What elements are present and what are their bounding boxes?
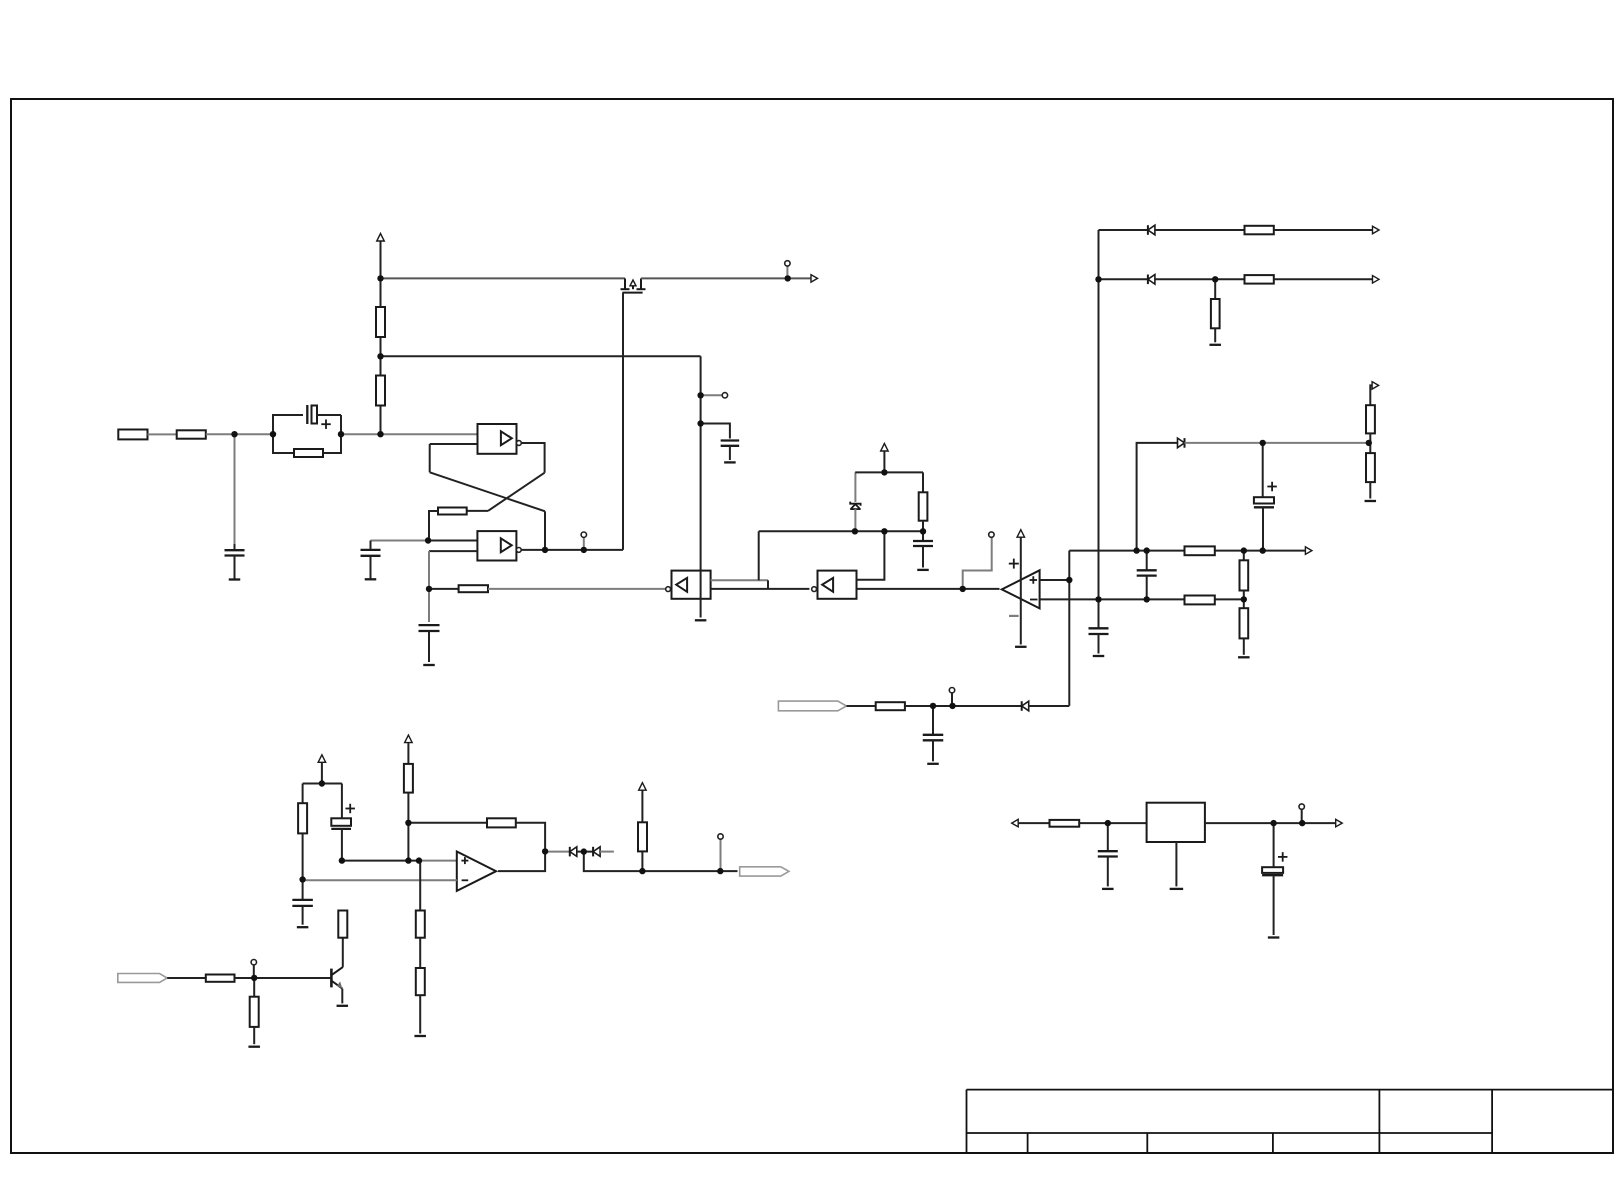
- wire jog: [767, 580, 769, 589]
- node N32: [299, 876, 305, 882]
- wire stub: [600, 851, 614, 853]
- node N13: [697, 420, 703, 426]
- wire cross-couple: [488, 473, 545, 511]
- node N19: [1066, 577, 1072, 583]
- offpage arrow: [1373, 226, 1380, 234]
- output flag FLAG2: [740, 867, 789, 876]
- node N27: [1241, 596, 1247, 602]
- connector J1: [118, 430, 147, 440]
- wire branch2: [1099, 278, 1148, 280]
- wire output U1A: [521, 443, 544, 473]
- label - supply: [1009, 615, 1019, 617]
- offpage arrow: [1305, 547, 1312, 555]
- wire: [429, 511, 438, 541]
- power VCC2: [883, 451, 885, 472]
- node N34: [405, 857, 411, 863]
- offpage arrow left: [1012, 819, 1019, 827]
- resistor R8: [1185, 546, 1215, 555]
- test point TP2: [583, 537, 585, 550]
- test point TP5: [253, 965, 255, 978]
- wire: [701, 394, 723, 396]
- ground: [248, 1046, 260, 1048]
- node N7: [785, 275, 791, 281]
- wire: [206, 433, 273, 435]
- power VCC1: [380, 241, 382, 278]
- wire rail: [381, 277, 626, 279]
- node N24: [1260, 440, 1266, 446]
- node N46: [1299, 820, 1305, 826]
- resistor R21: [416, 968, 425, 995]
- wire through U2A: [700, 571, 702, 618]
- resistor R9: [1243, 551, 1245, 561]
- wire output U1B: [521, 549, 623, 551]
- wire: [429, 550, 477, 552]
- wire: [1068, 580, 1070, 706]
- resistor R17: [302, 784, 304, 804]
- resistor R19: [487, 818, 516, 827]
- wire: [516, 823, 545, 852]
- comparator U1B: [477, 531, 516, 560]
- wire: [855, 471, 923, 473]
- wire U3 -in: [1040, 598, 1099, 600]
- label + supply: [1009, 563, 1019, 565]
- power V+ U3: [1020, 537, 1022, 571]
- node N25: [1095, 596, 1101, 602]
- ground: [414, 1035, 426, 1037]
- wire: [1018, 822, 1049, 824]
- node N1: [231, 431, 237, 437]
- ground: [365, 578, 377, 580]
- pin - label: [1030, 599, 1038, 601]
- resistor R6: [459, 585, 488, 592]
- wire: [758, 531, 760, 580]
- wire: [428, 540, 477, 542]
- diode D5: [569, 847, 571, 857]
- flag FLAG3: [778, 701, 846, 711]
- capacitor C9: [1098, 599, 1100, 628]
- wire: [407, 793, 409, 861]
- diode D6: [592, 847, 594, 857]
- wire: [1079, 822, 1146, 824]
- node N12: [697, 392, 703, 398]
- resistor R15: [1366, 405, 1375, 433]
- wire: [1068, 551, 1070, 580]
- wire U3 +in: [1040, 579, 1070, 581]
- wire: [380, 406, 382, 435]
- zener D1: [854, 472, 856, 502]
- resistor R20: [419, 861, 421, 911]
- wire: [380, 278, 382, 307]
- wire trunk: [1098, 230, 1100, 599]
- wire through U3: [1020, 571, 1022, 645]
- node N36: [405, 820, 411, 826]
- ground: [1093, 655, 1105, 657]
- resistor R23: [253, 978, 255, 997]
- wire: [148, 433, 177, 435]
- test point TP8: [1301, 809, 1303, 823]
- node N37: [542, 848, 548, 854]
- ground: [724, 461, 736, 463]
- node N29: [1212, 276, 1218, 282]
- wire: [1274, 278, 1373, 280]
- wire: [1205, 822, 1336, 824]
- wire: [430, 443, 478, 445]
- wire: [235, 977, 331, 979]
- capacitor C12: [932, 706, 934, 735]
- node N39: [581, 848, 587, 854]
- node N9: [426, 586, 432, 592]
- wire U2A out B: [711, 588, 810, 590]
- power VCC4: [405, 735, 413, 743]
- regulator U5: [1147, 803, 1205, 842]
- wire: [857, 531, 885, 580]
- node N8: [425, 537, 431, 543]
- resistor R2 (parallel RC): [273, 434, 294, 453]
- wire cross-couple: [430, 472, 545, 511]
- ground: [1238, 656, 1250, 658]
- node N14: [852, 528, 858, 534]
- wire: [963, 588, 1000, 590]
- input flag FLAG1: [118, 974, 167, 983]
- op-amp U4: [457, 852, 496, 891]
- diode D2: [1184, 438, 1186, 448]
- test point TP1: [786, 266, 788, 278]
- node N3: [338, 431, 344, 437]
- offpage arrow: [1373, 276, 1380, 284]
- wire: [380, 337, 382, 376]
- node N21: [1144, 547, 1150, 553]
- wire line A: [1069, 550, 1306, 552]
- resistor R24: [338, 911, 347, 938]
- test point TP3: [722, 393, 727, 398]
- resistor R22: [206, 975, 235, 982]
- capacitor C11 (polarized): [341, 784, 343, 819]
- ground: [1268, 936, 1280, 938]
- resistor R1: [177, 430, 206, 438]
- offpage arrow: [811, 275, 818, 283]
- node N28: [1095, 276, 1101, 282]
- capacitor C1: [234, 544, 236, 550]
- wire: [788, 277, 811, 279]
- resistor R7: [922, 472, 924, 492]
- node N33: [339, 857, 345, 863]
- comparator U1A: [478, 424, 517, 454]
- capacitor C2 (polarized, parallel RC): [273, 415, 303, 434]
- node N22: [1241, 547, 1247, 553]
- ground: [229, 578, 241, 580]
- node N35: [416, 857, 422, 863]
- resistor R5: [438, 508, 467, 515]
- wire feedback: [408, 822, 487, 824]
- wire: [700, 356, 702, 570]
- wire: [419, 860, 457, 862]
- op-amp U3: [1002, 570, 1040, 608]
- resistor R26: [876, 702, 905, 710]
- ground: [337, 1005, 349, 1007]
- wire MOSFET gate: [622, 293, 624, 550]
- wire: [428, 551, 430, 589]
- node N30: [1366, 440, 1372, 446]
- node N44: [1105, 820, 1111, 826]
- test point TP6: [720, 839, 722, 871]
- transistor Q2 (NPN): [330, 969, 333, 988]
- resistor R10: [1185, 596, 1215, 605]
- capacitor C6: [922, 531, 924, 541]
- capacitor C4: [428, 589, 430, 622]
- capacitor C3: [371, 540, 429, 542]
- wire: [1185, 442, 1369, 444]
- wire collector: [342, 938, 344, 967]
- capacitor C5: [701, 424, 730, 439]
- resistor R11: [1243, 599, 1245, 608]
- inverter U2B: [818, 571, 857, 599]
- wire: [1369, 433, 1371, 443]
- wire: [498, 851, 545, 871]
- node N41: [717, 868, 723, 874]
- wire branch1: [1099, 229, 1148, 231]
- pin + label: [1030, 579, 1038, 581]
- ground: [423, 664, 435, 666]
- ground: [1365, 500, 1377, 502]
- node N4: [377, 431, 383, 437]
- node N5: [377, 353, 383, 359]
- wire: [429, 588, 459, 590]
- wire U2A out A: [711, 579, 768, 581]
- node N43: [949, 703, 955, 709]
- power VCC5: [641, 790, 643, 822]
- wire: [303, 783, 342, 785]
- offpage arrow: [1336, 819, 1343, 827]
- node N23: [1260, 547, 1266, 553]
- wire: [429, 444, 431, 472]
- node N6: [377, 275, 383, 281]
- resistor R4: [376, 307, 385, 337]
- wire: [545, 851, 570, 853]
- diode D4: [1147, 275, 1149, 285]
- wire rail: [759, 530, 923, 532]
- ground: [917, 569, 929, 571]
- capacitor C7 (polarized): [1262, 443, 1264, 497]
- node N11: [581, 547, 587, 553]
- wire: [488, 588, 666, 590]
- resistor R25: [641, 851, 643, 871]
- capacitor C13: [1107, 823, 1109, 851]
- wire: [905, 705, 1022, 707]
- wire emitter: [341, 989, 343, 1004]
- capacitor C14 (polarized): [1273, 823, 1275, 867]
- node N2: [270, 431, 276, 437]
- node N38: [251, 975, 257, 981]
- test point TP4: [963, 537, 992, 589]
- node N40: [639, 868, 645, 874]
- diode D7: [1021, 701, 1023, 711]
- power VCC3: [318, 755, 326, 763]
- wire: [342, 860, 419, 862]
- resistor R12: [1245, 226, 1274, 235]
- node N18: [960, 586, 966, 592]
- node N45: [1270, 820, 1276, 826]
- ground: [927, 763, 939, 765]
- offpage arrow up-right: [1370, 385, 1372, 405]
- wire U2B out: [857, 588, 963, 590]
- node N31: [319, 780, 325, 786]
- node N20: [1133, 547, 1139, 553]
- wire U4 -in: [303, 879, 457, 881]
- test point TP7: [951, 693, 953, 706]
- wire: [1137, 443, 1177, 551]
- wire: [167, 977, 206, 979]
- resistor R13: [1245, 275, 1274, 284]
- resistor R14: [1214, 279, 1216, 299]
- resistor R16: [1369, 443, 1371, 453]
- wire: [419, 938, 421, 968]
- ground: [297, 926, 309, 928]
- wire: [381, 355, 701, 357]
- ground: [695, 619, 707, 621]
- inverter U2A: [672, 571, 711, 599]
- node N16: [920, 528, 926, 534]
- capacitor C10: [302, 880, 304, 900]
- wire: [1155, 278, 1245, 280]
- diode D3: [1147, 225, 1149, 235]
- wire: [341, 433, 478, 435]
- node N42: [930, 703, 936, 709]
- wire: [544, 511, 546, 550]
- ground: [1015, 646, 1027, 648]
- wire: [1029, 705, 1070, 707]
- wire: [1274, 229, 1373, 231]
- resistor R18: [404, 764, 413, 793]
- capacitor C8: [1146, 551, 1148, 571]
- wire: [577, 851, 593, 853]
- wire: [234, 434, 236, 546]
- node N26: [1144, 596, 1150, 602]
- node N10: [542, 547, 548, 553]
- resistor R27: [1050, 820, 1080, 827]
- wire: [847, 705, 876, 707]
- ground: [1102, 888, 1114, 890]
- ground pin U5: [1175, 842, 1177, 886]
- wire: [1155, 229, 1245, 231]
- wire rail: [641, 277, 788, 279]
- node N17: [881, 528, 887, 534]
- wire: [584, 852, 738, 872]
- transistor Q1 (P-MOSFET): [621, 278, 646, 292]
- wire: [467, 510, 488, 512]
- ground: [1209, 344, 1221, 346]
- node N15: [881, 469, 887, 475]
- wire line B: [1099, 598, 1244, 600]
- resistor R3: [376, 376, 385, 406]
